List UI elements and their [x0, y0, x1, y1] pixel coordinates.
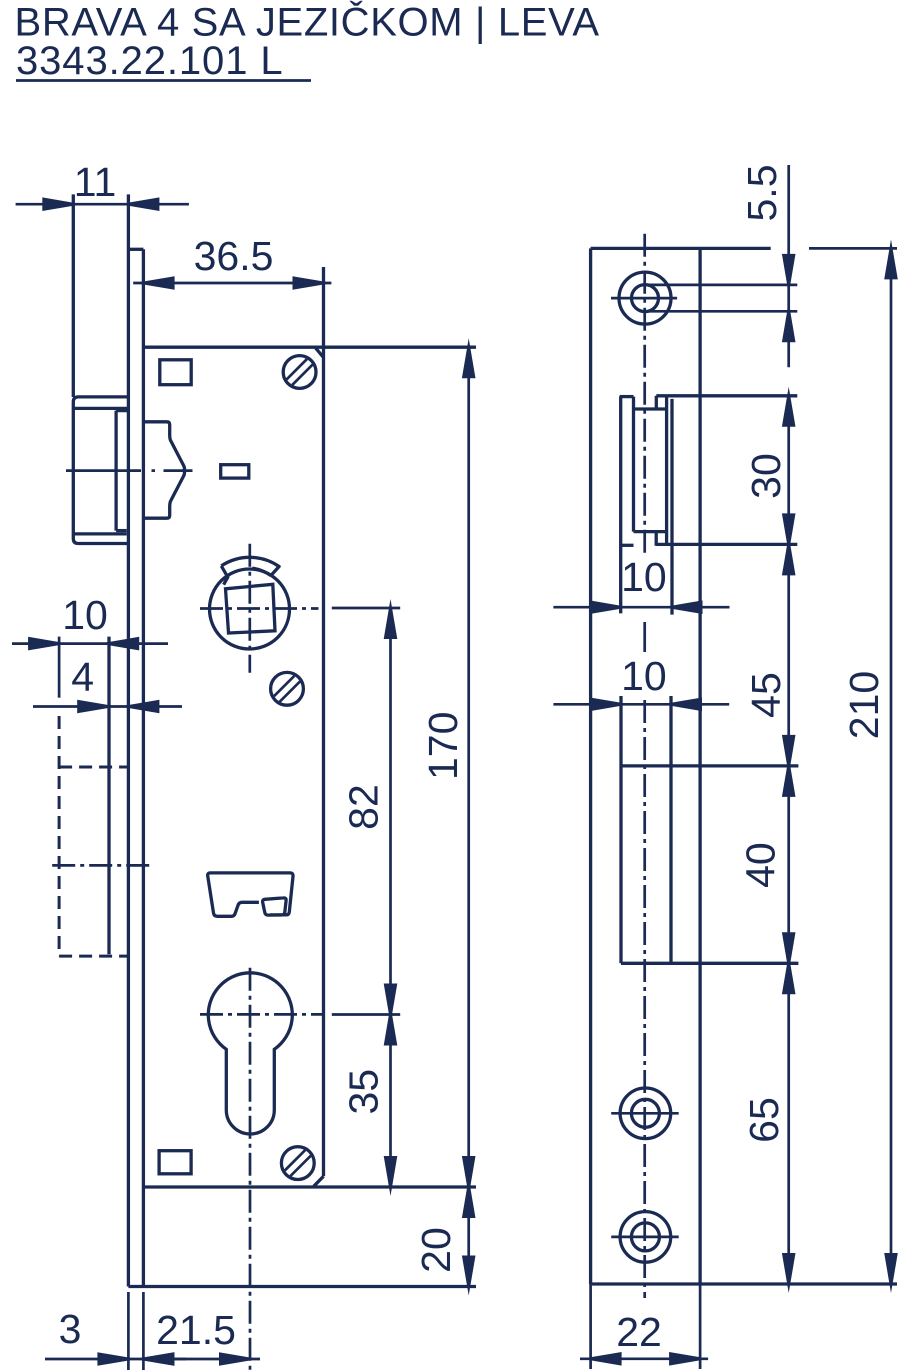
latch slot top step [655, 396, 658, 409]
latch slot top edge right + 30 ext [656, 394, 797, 397]
svg-text:10: 10 [62, 592, 108, 638]
dimension 45 line [787, 544, 790, 766]
lower cutout top edge + 40 ext [621, 764, 798, 767]
bottom screw S3 [281, 1147, 314, 1180]
hub vertical centerline [248, 544, 251, 673]
svg-text:11: 11 [74, 159, 117, 205]
hub inner arc right [252, 568, 270, 576]
dim 40 top arrow [782, 757, 796, 797]
euro cylinder hole [208, 973, 292, 1134]
dim 210 bottom arrow [884, 1253, 898, 1293]
svg-text:22: 22 [616, 1309, 662, 1355]
cylinder horizontal centerline [200, 1013, 324, 1016]
lock case right edge [322, 267, 325, 1176]
middle screw S2 [271, 672, 304, 705]
bottom square hole [159, 1151, 191, 1174]
lock case bottom edge [143, 1185, 476, 1188]
dim 10b left arrow [590, 698, 630, 712]
dimension 4 line [33, 705, 182, 708]
dim 10a extension left [619, 545, 622, 613]
strike plate top extension for 210 [809, 247, 897, 250]
latch slot right edge [665, 396, 668, 544]
svg-text:35: 35 [341, 1069, 387, 1115]
case top-right chamfer [316, 348, 324, 358]
dim 22 left arrow [582, 1352, 622, 1366]
latch slot inner top edge [634, 407, 668, 410]
dim 30 top arrow [782, 387, 796, 427]
svg-text:45: 45 [743, 672, 789, 718]
top plate screw hole outer [619, 272, 671, 324]
dimension 210 line [890, 248, 893, 1284]
dim 3 extension right / 21.5 left [142, 1292, 145, 1370]
svg-text:3: 3 [59, 1306, 82, 1352]
lever small latch piece [263, 898, 287, 915]
dimension 10 line [12, 642, 168, 645]
dead latch hidden top edge [59, 766, 127, 769]
svg-text:5.5: 5.5 [739, 165, 785, 222]
lower cutout bottom edge + 65 ext [621, 962, 798, 965]
svg-text:10: 10 [621, 554, 667, 600]
dim 11 right arrow [119, 197, 159, 211]
dim 30 bottom arrow [782, 513, 796, 553]
plate screw hole C outer [620, 1212, 671, 1263]
spindle hub crown tab [221, 557, 279, 584]
dead latch solid edge [107, 637, 110, 955]
latch head inner bottom line [74, 532, 126, 535]
latch slot inner bottom edge [634, 530, 668, 533]
small rectangular slot [221, 465, 249, 478]
svg-text:21.5: 21.5 [156, 1307, 236, 1353]
dim 4 left arrow [77, 700, 117, 714]
dim 45 bottom arrow [782, 735, 796, 775]
latch slot top-left piece [620, 395, 634, 398]
strike plate left edge [589, 248, 592, 1284]
plate centerline dash between 10 dims [643, 622, 646, 652]
screw hole C crosshair [611, 1236, 679, 1239]
latch head inner step top [116, 409, 128, 412]
lower cutout right edge [669, 696, 672, 963]
dimension 30 line [787, 396, 790, 545]
screw hole B crosshair [611, 1112, 679, 1115]
svg-text:36.5: 36.5 [194, 233, 274, 279]
plate vertical centerline lower [643, 700, 646, 1298]
svg-text:170: 170 [420, 712, 466, 780]
latch bolt tongue [144, 422, 184, 518]
dead latch centerline [52, 864, 153, 867]
dimension 82 line [389, 607, 392, 1014]
extension line cylinder axis [332, 1013, 400, 1016]
lever trapezoid cutout [208, 873, 293, 916]
5.5 tangent line lower [645, 310, 797, 313]
5.5 tangent line upper [645, 284, 797, 287]
latch centerline [66, 469, 193, 472]
dim 65 bottom arrow [782, 1253, 796, 1293]
lock case top edge [143, 346, 476, 349]
dim 5.5 upper arrow [782, 254, 796, 294]
top hole crosshair [611, 297, 677, 300]
extension line hub axis [332, 607, 400, 610]
latch slot outer right edge [670, 399, 673, 615]
latch slot left edge [619, 396, 622, 613]
svg-text:4: 4 [71, 654, 94, 700]
lower cutout left edge [619, 696, 622, 963]
case bottom-right chamfer [314, 1176, 324, 1186]
dimension 3 line [45, 1358, 186, 1361]
plate vertical centerline [643, 234, 646, 556]
dimension 10a line [553, 606, 729, 609]
dim 82 top arrow [384, 599, 398, 639]
dim 35 top arrow [384, 1006, 398, 1046]
dimension 11 line [16, 203, 189, 206]
dimension 22 line [580, 1357, 708, 1360]
plate screw hole B outer [620, 1088, 671, 1139]
dim 45 top arrow [782, 535, 796, 575]
dim 21.5 left arrow [134, 1352, 174, 1366]
svg-text:20: 20 [413, 1227, 459, 1273]
spindle square [226, 584, 276, 633]
svg-text:40: 40 [738, 842, 784, 888]
dim 3 right arrow [134, 1352, 174, 1366]
latch head box outline [73, 397, 128, 544]
svg-text:82: 82 [341, 784, 387, 830]
latch slot bottom-left piece [620, 544, 634, 547]
dim 22 extension left [589, 1284, 592, 1369]
top screw S1 [283, 356, 316, 389]
dim 4 right arrow [119, 700, 159, 714]
dim 82 bottom arrow [384, 984, 398, 1024]
spindle hub circle [210, 569, 290, 649]
svg-text:3343.22.101 L: 3343.22.101 L [16, 39, 284, 83]
dim 20 bottom arrow [462, 1256, 476, 1296]
dim 170 top arrow [462, 338, 476, 378]
plate screw hole C inner [631, 1223, 659, 1251]
dim 10a left arrow [590, 600, 630, 614]
dim 11 left arrow [42, 197, 82, 211]
dim 65 top arrow [782, 954, 796, 994]
faceplate lip jog [128, 248, 143, 251]
latch slot bottom edge right + 45 ext [656, 543, 797, 546]
svg-text:210: 210 [841, 671, 887, 739]
svg-text:65: 65 [741, 1097, 787, 1143]
dim 35 bottom arrow [384, 1156, 398, 1196]
dimension 36.5 line [133, 282, 331, 285]
dim 210 top arrow [884, 239, 898, 279]
top square hole [160, 360, 191, 385]
dim 10 extension line left [58, 637, 61, 698]
dim 40 bottom arrow [782, 932, 796, 972]
dimension 21.5 line [143, 1358, 260, 1361]
dim 10a right arrow [663, 600, 703, 614]
svg-text:10: 10 [621, 653, 667, 699]
plate screw hole B inner [631, 1099, 659, 1127]
latch head inner top line [73, 407, 128, 410]
latch slot bottom step [655, 532, 658, 546]
dim 10 right arrow [99, 637, 139, 651]
latch head inner step bottom [116, 529, 127, 532]
dim 170 bottom arrow [462, 1156, 476, 1196]
dimension 170 line [467, 347, 470, 1187]
dim 22 extension right [699, 1284, 702, 1369]
dimension 10b line [553, 703, 729, 706]
dim 36.5 right arrow [293, 276, 333, 290]
dim 10 left arrow [28, 637, 68, 651]
dim 5.5 lower arrow [782, 302, 796, 342]
dimension 35 line [389, 1015, 392, 1188]
dim 36.5 left arrow [135, 276, 175, 290]
dim 10b right arrow [662, 698, 702, 712]
svg-text:30: 30 [743, 453, 789, 499]
dimension 65 line [787, 963, 790, 1284]
dimension 20 line [467, 1187, 470, 1287]
top plate screw hole inner [632, 285, 659, 312]
latch slot inner left edge [632, 397, 635, 532]
hub horizontal centerline [200, 607, 319, 610]
dimension 5.5 line upper part [787, 165, 790, 367]
dim 3 extension left [127, 1292, 130, 1370]
dimension 40 line [787, 766, 790, 963]
dead latch hidden bottom edge [59, 955, 127, 958]
dim 20 top arrow [462, 1178, 476, 1218]
title underline [16, 79, 311, 82]
faceplate back edge [127, 194, 130, 1286]
svg-text:BRAVA 4 SA JEZIČKOM | LEVA: BRAVA 4 SA JEZIČKOM | LEVA [15, 0, 600, 45]
dead latch hidden left edge [58, 716, 61, 956]
faceplate inner lip edge [142, 249, 145, 1286]
cylinder vertical centerline [249, 968, 252, 1370]
strike plate top edge [591, 247, 771, 250]
dim 21.5 right arrow [219, 1352, 259, 1366]
dim 22 right arrow [669, 1352, 709, 1366]
strike plate bottom edge [591, 1282, 897, 1285]
dim 3 left arrow [97, 1352, 137, 1366]
strike plate right edge [698, 248, 701, 1284]
faceplate front edge (left strip) [72, 194, 75, 397]
latch head inner vertical [114, 411, 117, 531]
faceplate bottom edge [128, 1285, 476, 1288]
